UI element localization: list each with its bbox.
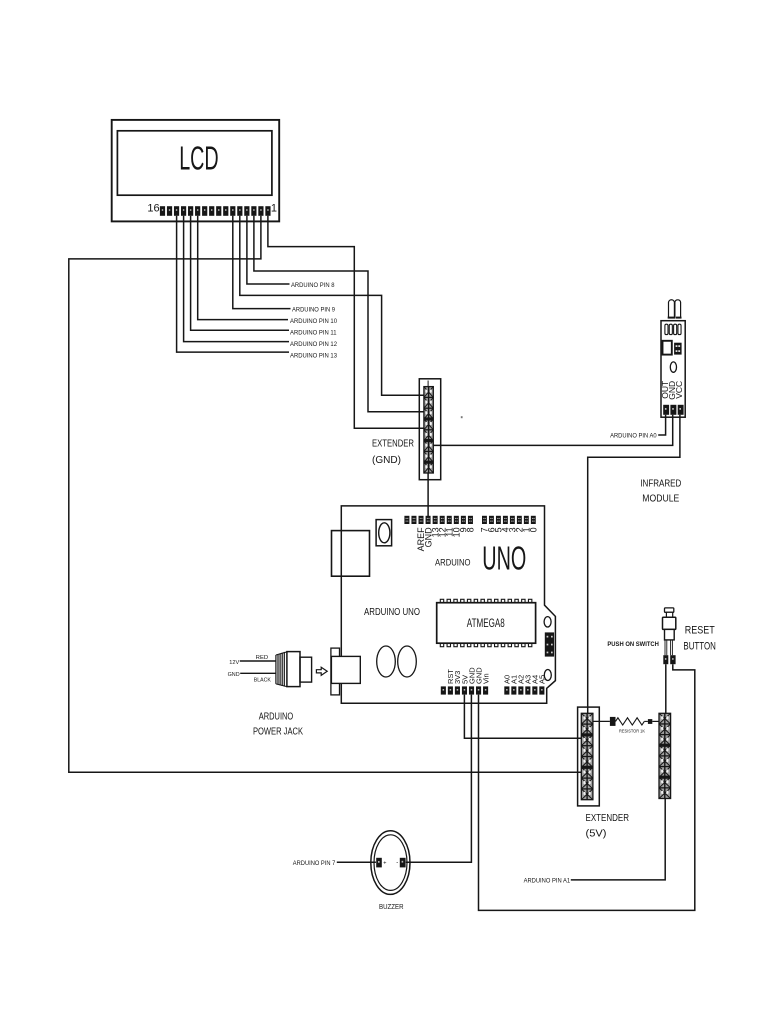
DC plug ribbed section [276,652,287,687]
buzzer outer ring [371,831,410,895]
Arduino UNO board outline [341,506,555,703]
Arduino power header (RST 3V3 5V GND GND Vin) [441,686,488,694]
wire LCD pin3 to extender GND pin3 [254,216,425,412]
DC plug body [287,652,300,687]
ATMEGA8 chip body [437,603,536,644]
wire LCD pin12 to ARDUINO PIN 11 label [191,216,289,330]
wire Arduino GND to reset button right pad [479,664,695,910]
wire ARDUINO PIN 7 label to buzzer positive pad [337,861,376,863]
buzzer positive pad [376,858,382,868]
svg-text:ARDUINO PIN 12: ARDUINO PIN 12 [290,341,337,348]
Arduino capacitor right [398,646,417,677]
infrared LED 1 [669,300,675,319]
wire LCD pin14 to ARDUINO PIN 13 label [177,216,289,352]
svg-text:ARDUINO PIN 13: ARDUINO PIN 13 [290,352,337,359]
Arduino digital header left (AREF GND 13-8) [404,516,473,524]
wire infrared VCC pad to extender 5V top [588,415,680,714]
Arduino mounting hole top [544,617,551,627]
wire 12V red lead [240,660,276,662]
infrared module body [661,321,685,418]
push switch right pad [670,655,675,664]
infrared mounting hole [670,362,676,372]
svg-text:ARDUINO: ARDUINO [435,558,471,569]
svg-text:ARDUINO PIN A1: ARDUINO PIN A1 [524,877,571,884]
infrared pad OUT [663,405,669,415]
wire LCD pin6 to ARDUINO PIN 9 label [233,216,291,309]
infrared IC white square [663,341,672,355]
Arduino digital header right labels [480,527,539,532]
Arduino mounting hole bottom [544,670,551,681]
svg-text:MODULE: MODULE [642,493,679,505]
LCD module outer body [112,120,280,221]
wire LCD pin11 to ARDUINO PIN 10 label [198,216,288,320]
svg-text:ARDUINO UNO: ARDUINO UNO [364,606,420,618]
svg-text:12V: 12V [229,660,239,666]
svg-text:BUZZER: BUZZER [379,902,404,911]
svg-text:0: 0 [529,527,539,532]
infrared LED 2 [675,300,681,319]
infrared pad VCC [678,405,684,415]
buzzer inner ring [374,835,407,891]
infrared header pills [665,324,681,334]
wire GND black lead [240,672,276,674]
svg-text:Vin: Vin [481,673,490,684]
svg-text:LCD: LCD [179,140,219,177]
push switch cap [665,608,674,612]
wire reset strip to ARDUINO PIN A1 label [571,799,665,880]
svg-text:ARDUINO PIN 10: ARDUINO PIN 10 [290,318,337,325]
Arduino reset button [376,520,392,546]
svg-text:ARDUINO PIN 8: ARDUINO PIN 8 [291,282,335,289]
Arduino USB connector [332,531,370,577]
svg-text:ATMEGA8: ATMEGA8 [467,616,505,630]
wire LCD pin5 to extender GND pin1 [240,216,425,395]
svg-text:-: - [396,860,398,866]
svg-text:GND: GND [228,672,240,678]
extender 5V outer body [578,707,600,806]
Arduino digital header left labels [416,527,475,552]
wire LCD pin13 to ARDUINO PIN 12 label [184,216,289,342]
extender 5V pin strip [581,713,593,799]
Arduino digital header right (7-0) [482,516,536,524]
buzzer negative pad [400,858,406,868]
Arduino power header labels [446,667,490,684]
svg-text:PUSH ON SWITCH: PUSH ON SWITCH [607,641,659,648]
svg-text:ARDUINO PIN 11: ARDUINO PIN 11 [290,329,337,336]
infrared LED bases [668,317,676,319]
infrared pad GND [670,405,676,415]
svg-text:8: 8 [466,527,476,532]
svg-text:(GND): (GND) [372,454,401,466]
push switch body [663,617,676,629]
stray dot [461,416,463,418]
extender GND outer body [419,379,440,480]
svg-text:1: 1 [271,202,277,214]
svg-text:POWER JACK: POWER JACK [253,725,303,737]
Arduino power jack body [331,656,360,683]
ATMEGA8 chip pins bottom [440,643,532,646]
svg-text:EXTENDER: EXTENDER [372,438,414,450]
DC plug tip [300,657,312,682]
svg-text:RESET: RESET [685,624,715,636]
push switch lower body [665,629,675,640]
svg-text:ARDUINO: ARDUINO [259,710,294,722]
wire Arduino GND to buzzer negative pad [406,695,472,863]
extender GND top tick [427,381,429,387]
LCD 16-pin header row [160,206,271,216]
svg-text:ARDUINO PIN 9: ARDUINO PIN 9 [292,307,335,314]
svg-text:(5V): (5V) [586,828,607,840]
Arduino power jack flange [331,648,340,695]
svg-text:16: 16 [147,203,159,215]
LCD screen inner rectangle [117,131,272,195]
svg-text:ARDUINO PIN 7: ARDUINO PIN 7 [293,860,336,867]
push switch legs [665,640,672,655]
Arduino capacitor left [377,646,396,677]
wire LCD pin2 long loop via left edge to extender 5V [69,216,582,772]
extender GND pin strip [424,387,433,473]
Arduino analog header labels [503,675,547,684]
wire push switch left pad to reset strip top [665,664,667,713]
infrared trimmer pot [674,343,682,355]
svg-text:+: + [383,861,386,867]
push switch neck [666,612,672,617]
svg-text:UNO: UNO [482,540,526,577]
wire extender GND bottom to Arduino GND top header [427,473,429,516]
reset pin strip [659,713,671,798]
svg-text:RED: RED [256,655,269,661]
svg-text:A5: A5 [538,675,547,684]
wire LCD pin1 to extender GND pin5 [268,216,425,428]
plug arrow [316,667,327,675]
Arduino ICSP header [545,632,554,656]
svg-text:RESISTOR 1K: RESISTOR 1K [619,729,645,734]
svg-text:EXTENDER: EXTENDER [586,812,630,824]
wire extender GND to infrared GND pad [433,415,672,446]
svg-text:ARDUINO PIN A0: ARDUINO PIN A0 [610,432,657,439]
ATMEGA8 chip pins top [440,599,532,602]
svg-text:INFRARED: INFRARED [640,478,681,490]
wire Arduino 5V to extender 5V [464,695,582,739]
resistor 1K leads and pads [593,717,659,726]
svg-text:BUTTON: BUTTON [683,641,716,653]
wire LCD pin4 to ARDUINO PIN 8 label [247,216,290,284]
Arduino analog header (A0-A5) [504,686,544,694]
wire infrared OUT pad to ARDUINO PIN A0 label [658,415,665,435]
svg-text:VCC: VCC [674,381,684,399]
push switch left pad [663,655,668,664]
svg-text:BLACK: BLACK [254,678,271,684]
